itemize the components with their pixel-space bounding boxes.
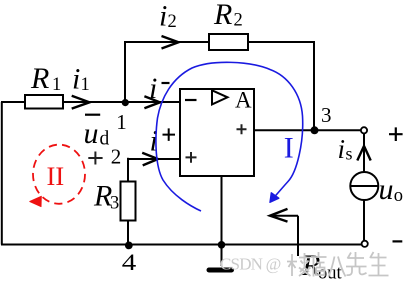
svg-text:CSDN @: CSDN @ xyxy=(220,255,281,274)
ground xyxy=(209,268,232,273)
label i+ superscript plus xyxy=(163,128,176,141)
svg-text:u: u xyxy=(84,117,99,150)
node 1 dot xyxy=(122,99,129,106)
label ud minus sign xyxy=(85,114,100,116)
svg-text:I: I xyxy=(284,131,294,164)
wire R3 bottom xyxy=(127,220,129,246)
svg-text:2: 2 xyxy=(111,144,122,168)
wire feedback down xyxy=(313,41,315,130)
resistor R1 xyxy=(25,95,63,109)
label minus right bottom xyxy=(393,240,403,242)
op-amp minus input sign xyxy=(185,99,197,101)
node 3 dot xyxy=(311,126,319,134)
svg-text:R: R xyxy=(213,0,232,31)
svg-text:2: 2 xyxy=(234,10,243,30)
arrow i+ xyxy=(142,153,158,166)
arrow Rout left xyxy=(270,209,288,222)
wire bottom xyxy=(1,244,361,246)
wire output xyxy=(253,129,361,131)
svg-text:o: o xyxy=(394,186,403,206)
arrow i2 xyxy=(162,36,179,49)
wire R1 left xyxy=(1,101,25,103)
watermark CJK glyph strokes xyxy=(287,252,389,277)
arrow i- xyxy=(144,96,160,108)
wire node 2 down to R3 xyxy=(127,158,129,183)
op-amp plus input sign xyxy=(186,152,197,163)
ground junction dot xyxy=(218,241,226,249)
arrow is up xyxy=(357,146,370,161)
svg-text:A: A xyxy=(235,88,252,113)
wire R1 to op-amp xyxy=(63,101,181,103)
terminal top open circle xyxy=(361,127,367,133)
source u_o circle xyxy=(350,172,378,200)
svg-text:1: 1 xyxy=(81,75,90,95)
loop II arrowhead xyxy=(30,196,42,206)
wire top right xyxy=(247,41,314,43)
svg-text:s: s xyxy=(346,144,353,164)
svg-text:3: 3 xyxy=(321,103,332,127)
op-amp triangle symbol xyxy=(212,90,228,104)
svg-text:i: i xyxy=(159,0,167,33)
label plus right top xyxy=(389,127,403,141)
wire source bottom xyxy=(363,200,365,241)
loop I arrowhead xyxy=(270,193,279,203)
svg-text:u: u xyxy=(379,173,394,206)
svg-text:i: i xyxy=(338,134,346,164)
svg-text:II: II xyxy=(47,161,65,191)
svg-text:2: 2 xyxy=(168,12,177,32)
svg-text:d: d xyxy=(100,129,110,150)
resistor R3 xyxy=(121,182,136,221)
source u_o bar xyxy=(351,185,379,187)
op-amp U1 box xyxy=(180,89,254,176)
svg-text:4: 4 xyxy=(122,250,137,276)
node 4 dot xyxy=(125,242,133,250)
label node 2 plus sign xyxy=(88,152,102,165)
wire top left xyxy=(124,41,210,43)
loop II red dashed circle xyxy=(33,145,85,204)
arrow i1 xyxy=(72,96,90,109)
svg-text:1: 1 xyxy=(116,110,127,134)
terminal bottom open circle xyxy=(362,241,368,247)
wire node 1 up xyxy=(124,42,126,102)
svg-text:1: 1 xyxy=(52,75,61,95)
wire node 2 horizontal xyxy=(128,158,181,160)
label i- superscript minus xyxy=(162,82,170,84)
svg-text:3: 3 xyxy=(110,194,119,214)
svg-text:i: i xyxy=(72,63,80,96)
svg-text:R: R xyxy=(30,62,49,95)
wire left vertical xyxy=(1,102,3,245)
op-amp output plus sign xyxy=(237,124,247,134)
wire Rout xyxy=(270,216,298,256)
resistor R2 xyxy=(209,34,248,50)
svg-text:i: i xyxy=(149,72,157,105)
wire source top xyxy=(363,133,365,172)
loop I blue curve xyxy=(156,62,303,211)
wire op-amp ground stub xyxy=(221,175,223,266)
